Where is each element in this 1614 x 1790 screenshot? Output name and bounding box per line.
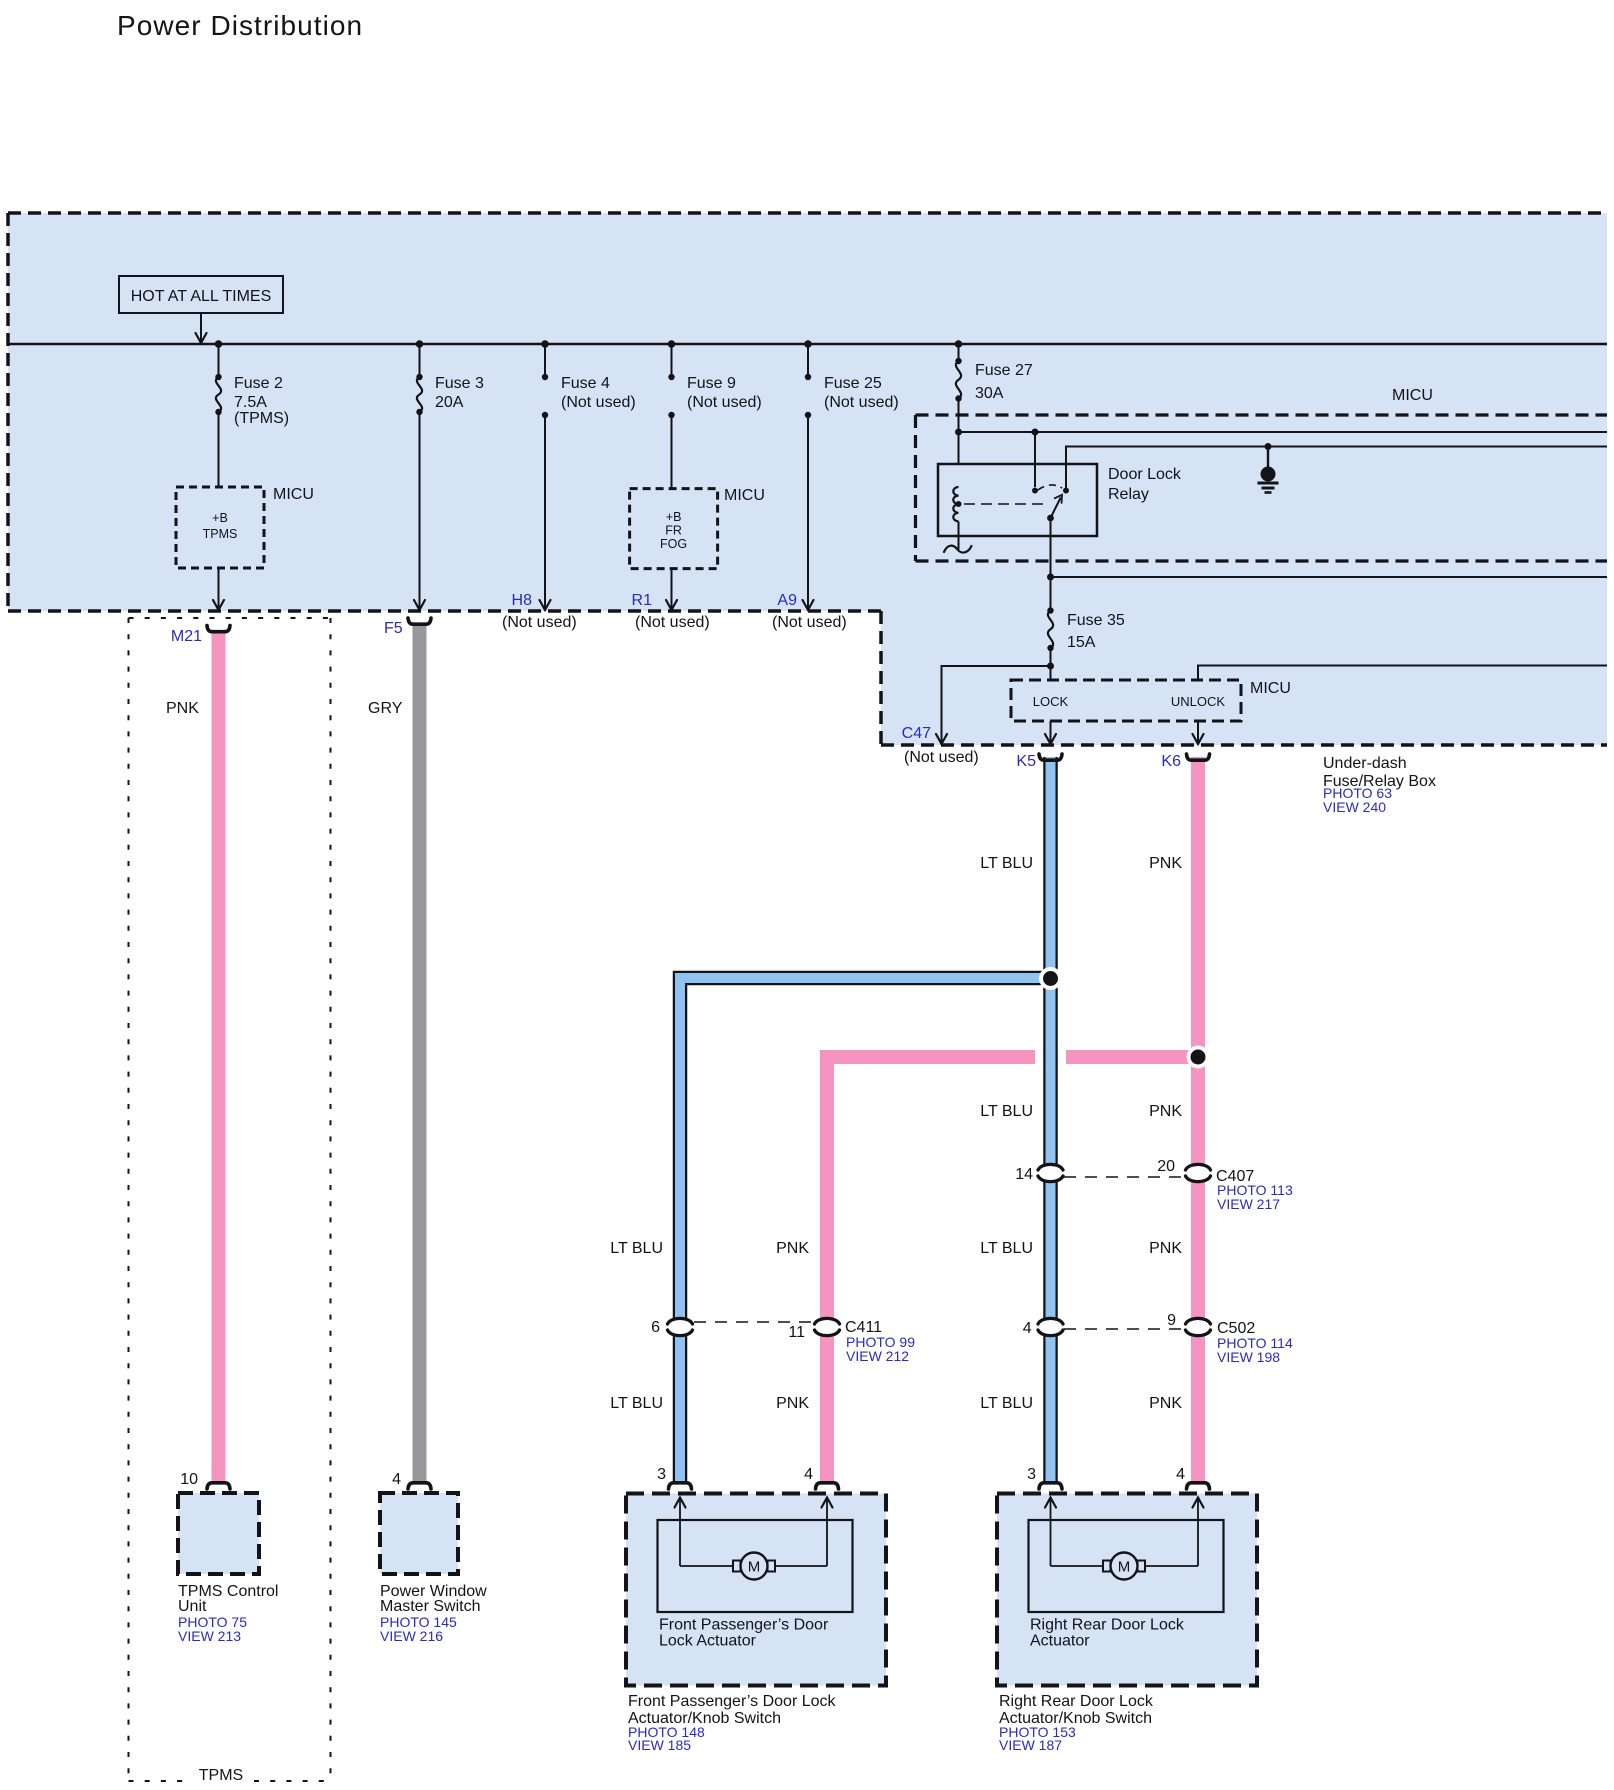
MICU +B FR FOG block — [630, 489, 718, 569]
fuse F4 (not used) — [540, 340, 636, 610]
svg-text:(Not used): (Not used) — [687, 394, 762, 411]
lock output arrow K5 — [1045, 721, 1056, 744]
svg-text:MICU: MICU — [273, 486, 314, 503]
door lock relay label — [1108, 466, 1182, 503]
fuse F25 (not used) — [803, 340, 899, 610]
svg-text:VIEW 216: VIEW 216 — [380, 1628, 443, 1644]
TPMS control unit box — [178, 1493, 259, 1574]
svg-text:VIEW 187: VIEW 187 — [999, 1737, 1062, 1753]
svg-text:4: 4 — [392, 1471, 401, 1488]
svg-text:GRY: GRY — [368, 700, 403, 717]
connector cap TPMS pin 10 — [207, 1483, 230, 1489]
svg-text:(Not used): (Not used) — [824, 394, 899, 411]
svg-text:M: M — [1118, 1559, 1131, 1576]
node R1 label — [632, 592, 710, 631]
door lock relay K (box) — [938, 464, 1097, 536]
relay linkage (dashed) — [964, 503, 1048, 505]
connector cap rear actuator pin 3 — [1039, 1483, 1062, 1489]
svg-text:14: 14 — [1015, 1166, 1033, 1183]
svg-text:PNK: PNK — [1149, 855, 1182, 872]
svg-text:Lock Actuator: Lock Actuator — [659, 1633, 757, 1650]
fuse F2 7.5A (TPMS) — [215, 340, 289, 487]
svg-text:LT BLU: LT BLU — [980, 1240, 1033, 1257]
svg-text:Fuse 9: Fuse 9 — [687, 375, 736, 392]
svg-text:K6: K6 — [1161, 753, 1181, 770]
power window master switch box — [380, 1493, 458, 1574]
wire GRY F5 to power window master switch — [413, 624, 427, 1482]
fuse F35 15A — [1047, 577, 1125, 680]
fuse F3 20A — [414, 340, 484, 610]
wire +B TPMS to M21 — [213, 568, 224, 610]
svg-text:PNK: PNK — [776, 1240, 809, 1257]
svg-text:Fuse 27: Fuse 27 — [975, 362, 1033, 379]
under-dash fuse/relay box dashed border — [8, 213, 1607, 745]
svg-text:Under-dash: Under-dash — [1323, 755, 1407, 772]
svg-text:LT BLU: LT BLU — [980, 1103, 1033, 1120]
svg-text:F5: F5 — [384, 620, 403, 637]
svg-text:Fuse 4: Fuse 4 — [561, 375, 610, 392]
svg-text:MICU: MICU — [724, 487, 765, 504]
svg-text:Fuse 3: Fuse 3 — [435, 375, 484, 392]
wire LT BLU branch (to front passenger actuator) — [680, 978, 1044, 1482]
svg-text:VIEW 212: VIEW 212 — [846, 1348, 909, 1364]
svg-text:3: 3 — [657, 1466, 666, 1483]
connector C411 labels — [651, 1319, 915, 1364]
connector cap front actuator pin 3 — [669, 1483, 692, 1489]
svg-text:VIEW 185: VIEW 185 — [628, 1737, 691, 1753]
svg-text:UNLOCK: UNLOCK — [1171, 694, 1226, 709]
svg-text:Master Switch: Master Switch — [380, 1598, 480, 1615]
wire +B FR FOG to R1 — [666, 569, 677, 610]
svg-text:VIEW 213: VIEW 213 — [178, 1628, 241, 1644]
connector C411 pin 11 (PNK) — [815, 1318, 840, 1324]
connector cap PW switch pin 4 — [408, 1483, 431, 1489]
fuse F27 30A — [955, 340, 1033, 464]
node A9 label — [772, 592, 847, 631]
svg-text:Fuse 25: Fuse 25 — [824, 375, 882, 392]
connector C411 pin 6 (LT BLU) — [668, 1318, 693, 1324]
svg-text:C47: C47 — [902, 725, 931, 742]
svg-text:(Not used): (Not used) — [635, 614, 710, 631]
power window master switch caption — [380, 1583, 487, 1644]
connector cap rear actuator pin 4 — [1187, 1483, 1210, 1489]
wire PNK branch (to front passenger actuator) — [827, 1057, 1192, 1482]
svg-text:+B: +B — [212, 511, 228, 525]
svg-text:HOT AT ALL TIMES: HOT AT ALL TIMES — [131, 288, 272, 305]
connector C502 link (dashed) — [1064, 1328, 1184, 1330]
svg-text:A9: A9 — [777, 592, 797, 609]
svg-text:VIEW 217: VIEW 217 — [1217, 1196, 1280, 1212]
svg-text:LT BLU: LT BLU — [980, 1395, 1033, 1412]
connector cap front actuator pin 4 — [816, 1483, 839, 1489]
svg-text:(Not used): (Not used) — [904, 749, 979, 766]
wire to C47 (not used) — [936, 666, 1051, 744]
svg-text:Fuse 35: Fuse 35 — [1067, 612, 1125, 629]
connector C502 pin 4 (LT BLU) — [1038, 1318, 1063, 1324]
right rear actuator caption — [999, 1693, 1154, 1753]
svg-text:4: 4 — [1176, 1466, 1185, 1483]
TPMS control unit caption — [178, 1583, 278, 1644]
svg-text:PNK: PNK — [1149, 1240, 1182, 1257]
svg-text:(Not used): (Not used) — [772, 614, 847, 631]
svg-text:Front Passenger’s Door: Front Passenger’s Door — [659, 1617, 829, 1634]
svg-text:Right Rear Door Lock: Right Rear Door Lock — [1030, 1617, 1185, 1634]
svg-text:VIEW 198: VIEW 198 — [1217, 1349, 1280, 1365]
svg-text:6: 6 — [651, 1319, 660, 1336]
svg-text:VIEW 240: VIEW 240 — [1323, 799, 1386, 815]
svg-text:LT BLU: LT BLU — [980, 855, 1033, 872]
svg-text:H8: H8 — [512, 592, 533, 609]
svg-text:20: 20 — [1157, 1158, 1175, 1175]
svg-text:(TPMS): (TPMS) — [234, 410, 289, 427]
svg-text:9: 9 — [1167, 1312, 1176, 1329]
connector C407 pin 14 (LT BLU) — [1038, 1164, 1063, 1170]
svg-text:+B: +B — [666, 510, 682, 524]
svg-text:M: M — [748, 1559, 761, 1576]
svg-text:Power Distribution: Power Distribution — [117, 10, 363, 41]
svg-text:PNK: PNK — [166, 700, 199, 717]
relay movable blade — [1047, 495, 1062, 577]
MICU enclosure (relay section) — [916, 415, 1608, 561]
wire MICU internal feed 2 — [1066, 443, 1607, 491]
fuse F9 (not used) — [668, 340, 762, 488]
svg-text:(Not used): (Not used) — [561, 394, 636, 411]
connector C411 link (dashed) — [694, 1321, 812, 1323]
TPMS system dotted enclosure — [129, 618, 331, 1784]
svg-text:FOG: FOG — [660, 537, 687, 551]
node H8 label — [502, 592, 577, 631]
svg-text:PNK: PNK — [776, 1395, 809, 1412]
HOT AT ALL TIMES tag — [119, 276, 283, 343]
svg-text:FR: FR — [665, 524, 682, 538]
svg-text:TPMS: TPMS — [203, 527, 238, 541]
svg-text:R1: R1 — [632, 592, 653, 609]
junction node LT BLU — [1039, 967, 1062, 990]
relay coil pigtail squiggle — [944, 546, 972, 553]
right rear door lock actuator — [997, 1494, 1257, 1686]
door lock relay coil — [953, 432, 1035, 551]
svg-text:TPMS: TPMS — [199, 1767, 243, 1784]
svg-text:PNK: PNK — [1149, 1103, 1182, 1120]
svg-text:LT BLU: LT BLU — [610, 1240, 663, 1257]
svg-text:M21: M21 — [171, 628, 202, 645]
svg-text:15A: 15A — [1067, 634, 1096, 651]
relay contact fixed (unlock side) — [1063, 488, 1069, 494]
svg-text:Relay: Relay — [1108, 486, 1149, 503]
svg-text:LT BLU: LT BLU — [610, 1395, 663, 1412]
front passenger actuator caption — [628, 1693, 837, 1753]
under-dash fuse/relay box caption — [1323, 755, 1436, 815]
svg-text:Right Rear Door Lock: Right Rear Door Lock — [999, 1693, 1154, 1710]
svg-text:(Not used): (Not used) — [502, 614, 577, 631]
connector C407 labels — [1015, 1158, 1293, 1212]
svg-text:Unit: Unit — [178, 1598, 207, 1615]
svg-text:Front Passenger’s Door Lock: Front Passenger’s Door Lock — [628, 1693, 837, 1710]
ground G (MICU internal) — [1258, 447, 1279, 493]
svg-text:LOCK: LOCK — [1033, 694, 1069, 709]
connector cap K5 — [1039, 754, 1062, 760]
MICU +B TPMS block — [176, 487, 264, 568]
unlock output arrow K6 — [1193, 721, 1204, 744]
svg-text:3: 3 — [1027, 1466, 1036, 1483]
battery bus wire — [8, 343, 1607, 345]
wire PNK K6 main (to right rear actuator) — [1191, 757, 1205, 1482]
wire PNK M21 to TPMS control unit — [212, 631, 226, 1482]
junction node PNK — [1187, 1046, 1210, 1069]
front passenger door lock actuator — [626, 1494, 886, 1686]
wire relay output — [1047, 574, 1607, 581]
relay contact fixed (lock side) — [1032, 488, 1038, 494]
connector cap K6 — [1187, 754, 1210, 760]
svg-text:PNK: PNK — [1149, 1395, 1182, 1412]
svg-text:K5: K5 — [1016, 753, 1036, 770]
svg-text:20A: 20A — [435, 394, 464, 411]
svg-text:Fuse 2: Fuse 2 — [234, 375, 283, 392]
svg-text:MICU: MICU — [1250, 680, 1291, 697]
connector C502 labels — [1023, 1312, 1293, 1365]
svg-text:Door Lock: Door Lock — [1108, 466, 1182, 483]
wire unlock feed — [1198, 666, 1607, 681]
svg-text:4: 4 — [804, 1466, 813, 1483]
svg-text:Actuator: Actuator — [1030, 1633, 1090, 1650]
connector cap M21 — [207, 626, 230, 632]
svg-text:30A: 30A — [975, 385, 1004, 402]
svg-text:11: 11 — [788, 1324, 805, 1341]
svg-text:MICU: MICU — [1392, 387, 1433, 404]
svg-text:7.5A: 7.5A — [234, 394, 267, 411]
svg-text:4: 4 — [1023, 1320, 1032, 1337]
wire MICU internal feed 1 — [955, 429, 1607, 436]
connector C407 link (dashed) — [1064, 1176, 1184, 1178]
svg-text:10: 10 — [180, 1471, 198, 1488]
connector cap F5 — [408, 618, 431, 624]
MICU lock/unlock driver box — [1011, 680, 1241, 721]
connector C407 pin 20 (PNK) — [1186, 1164, 1211, 1170]
connector C502 pin 9 (PNK) — [1186, 1318, 1211, 1324]
wire LT BLU K5 main (to right rear actuator) — [1043, 757, 1058, 1482]
under-dash fuse/relay box panel — [8, 213, 1607, 745]
relay throw path (dashed arc) — [1038, 485, 1062, 490]
